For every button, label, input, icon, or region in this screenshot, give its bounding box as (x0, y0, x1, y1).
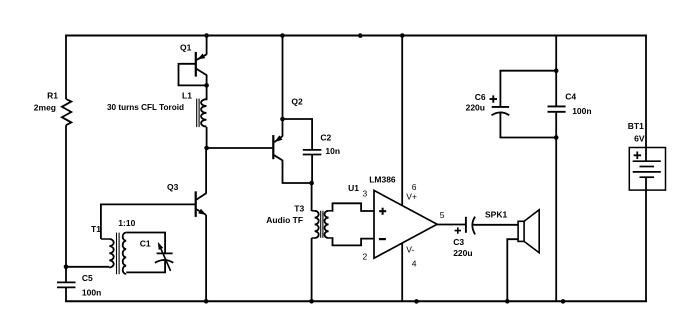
node C6 C4 bottom (554, 135, 559, 140)
transistor Q3 (195, 191, 197, 217)
wire Q1 collector (206, 75, 208, 101)
wire C6 top link (500, 71, 556, 107)
svg-text:30 turns CFL Toroid: 30 turns CFL Toroid (107, 103, 184, 112)
node ground offset dot B (561, 299, 566, 304)
wire L1 to node (206, 127, 208, 149)
svg-text:U1: U1 (348, 183, 359, 193)
node top rail Q1 (204, 33, 209, 38)
op-amp U1 (374, 190, 437, 258)
svg-text:220u: 220u (453, 248, 472, 258)
svg-text:100n: 100n (572, 106, 591, 116)
inductor L1 (201, 99, 206, 126)
svg-text:C4: C4 (565, 91, 576, 101)
node T3 ground (309, 299, 314, 304)
svg-text:Audio TF: Audio TF (266, 215, 303, 225)
battery BT1 (629, 148, 665, 191)
node top rail stray dot (358, 33, 363, 38)
transformer T1 (101, 238, 109, 240)
wire C2 top link (282, 119, 313, 150)
wire Q3 emitter to ground (205, 215, 207, 302)
svg-text:L1: L1 (182, 91, 192, 101)
resistor R1 (62, 99, 71, 125)
capacitor C6 polarized (492, 106, 509, 108)
wire C3 to speaker (473, 224, 518, 226)
svg-text:1:10: 1:10 (118, 218, 135, 228)
wire C4 branch lower (555, 112, 557, 302)
wire Q2 base (206, 147, 274, 149)
wire U1 V- ground (401, 243, 403, 302)
svg-text:LM386: LM386 (369, 175, 396, 185)
wire C1 loop bottom (126, 260, 165, 272)
capacitor C1 variable (157, 252, 173, 254)
wire C4 branch upper (555, 35, 557, 107)
wire bottom ground rail (65, 300, 647, 302)
node speaker ground (505, 299, 510, 304)
wire Q3 base (101, 203, 196, 205)
wire C2 bottom link (311, 155, 313, 184)
svg-text:C6: C6 (475, 92, 486, 102)
wire C6 bottom link (500, 112, 556, 137)
svg-text:5: 5 (440, 210, 445, 220)
wire T1 primary bottom (65, 266, 109, 268)
svg-text:V-: V- (406, 245, 414, 255)
wire Q1 base feedback loop (179, 64, 206, 86)
capacitor C2 (303, 149, 322, 151)
capacitor C5 (57, 281, 76, 283)
wire left branch upper (65, 35, 67, 100)
svg-text:BT1: BT1 (628, 121, 644, 131)
node Q2 emitter C2 (280, 117, 285, 122)
node top rail V+ (400, 33, 405, 38)
speaker SPK1 (518, 221, 524, 241)
svg-text:Q1: Q1 (180, 42, 192, 52)
svg-text:3: 3 (363, 189, 368, 199)
svg-text:6V: 6V (634, 134, 645, 144)
svg-text:C2: C2 (320, 133, 331, 143)
transformer T3 (312, 210, 315, 212)
node C6 C4 top (554, 68, 559, 73)
svg-text:220u: 220u (466, 102, 485, 112)
wire T3 secondary to plus input (332, 203, 375, 211)
wire top supply rail (65, 35, 647, 37)
wire left branch lower (65, 125, 67, 281)
svg-text:C1: C1 (140, 238, 151, 248)
svg-text:2meg: 2meg (34, 102, 56, 112)
svg-text:T3: T3 (294, 204, 304, 214)
transistor Q2 (272, 135, 274, 159)
capacitor C3 polarized (465, 217, 467, 233)
svg-text:Q2: Q2 (291, 97, 303, 107)
wire Q2 emitter from rail (282, 35, 284, 137)
wire node to Q3 collector (205, 147, 207, 194)
node ground offset dot A (414, 299, 419, 304)
wire U1 V+ supply (401, 35, 403, 206)
svg-text:V+: V+ (406, 192, 417, 202)
wire Q2 collector (283, 160, 313, 183)
wire battery from rail (645, 35, 647, 162)
svg-text:10n: 10n (325, 146, 340, 156)
wire C5 to ground (65, 287, 67, 302)
wire Q1 emitter from rail (206, 35, 208, 55)
wire U1 output (437, 224, 466, 226)
svg-text:2: 2 (363, 252, 368, 262)
wire T3 secondary to minus input (332, 238, 375, 245)
svg-text:C3: C3 (453, 237, 464, 247)
svg-text:T1: T1 (91, 224, 101, 234)
wire T3 primary top (311, 182, 313, 211)
svg-text:C5: C5 (82, 273, 93, 283)
node L1 Q3 Q2 junction (204, 146, 209, 151)
svg-text:Q3: Q3 (167, 182, 179, 192)
wire T1 primary top riser (100, 204, 102, 240)
capacitor C4 (548, 105, 566, 107)
svg-text:SPK1: SPK1 (485, 210, 507, 220)
wire speaker to ground (507, 239, 518, 302)
transistor Q1 (195, 52, 197, 77)
svg-text:4: 4 (412, 258, 417, 268)
node top rail Q2 (280, 33, 285, 38)
node junction left (64, 265, 69, 270)
svg-text:100n: 100n (82, 287, 101, 297)
wire C1 loop top (126, 233, 165, 254)
node Q2 collector T3 (309, 181, 314, 186)
node Q1 collector (204, 83, 209, 88)
node Q3 ground (204, 299, 209, 304)
svg-text:R1: R1 (47, 90, 58, 100)
wire T3 primary bottom (311, 238, 313, 302)
wire battery to ground (645, 177, 647, 302)
